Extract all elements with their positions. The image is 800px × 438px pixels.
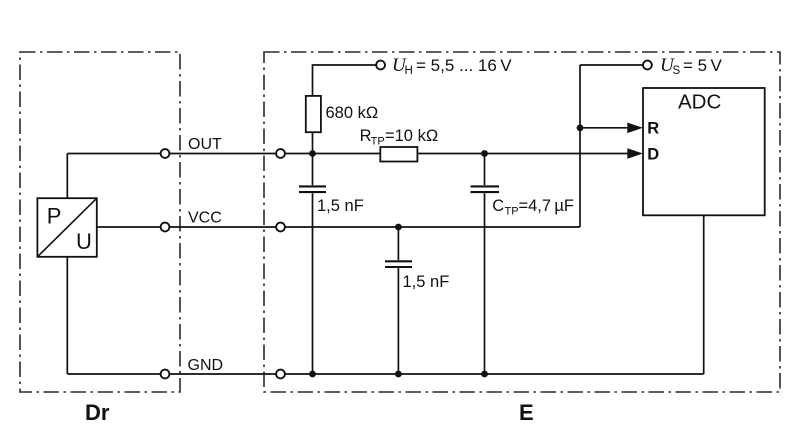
- resistor 680 kOhm: [306, 96, 321, 132]
- terminal circle GND (Dr side): [161, 370, 170, 379]
- svg-text:S: S: [673, 65, 681, 77]
- node US/R-input junction: [577, 124, 584, 131]
- wire VCC bus to supply line: [285, 226, 580, 228]
- arrowhead D input: [627, 148, 643, 159]
- node GND/1.5nF left junction: [309, 371, 316, 378]
- svg-text:= 5 V: = 5 V: [683, 56, 723, 75]
- wire US horizontal: [580, 64, 643, 66]
- terminal circle VCC (Dr side): [161, 223, 170, 232]
- svg-text:1,5 nF: 1,5 nF: [317, 197, 364, 215]
- wire UH horizontal: [313, 64, 377, 66]
- capacitor 1,5 nF (middle, VCC to GND): [397, 227, 399, 260]
- svg-text:R: R: [647, 120, 659, 138]
- wire OUT between boxes: [169, 153, 276, 155]
- svg-text:U: U: [76, 229, 92, 254]
- capacitor 1,5 nF (left, OUT to GND): [312, 154, 314, 186]
- wire RTP to D line: [417, 153, 628, 155]
- wire VCC from sensor: [97, 226, 161, 228]
- wire sensor top pin to OUT row: [66, 154, 68, 199]
- svg-text:ADC: ADC: [678, 90, 721, 113]
- svg-text:1,5 nF: 1,5 nF: [403, 273, 450, 291]
- node GND/1.5nF mid junction: [395, 371, 402, 378]
- IC ADC box: [643, 88, 765, 215]
- wire GND between boxes: [169, 373, 276, 375]
- terminal circle OUT (Dr side): [161, 149, 170, 158]
- sensor box P/U: [37, 198, 96, 257]
- svg-text:OUT: OUT: [188, 136, 222, 153]
- terminal circle VCC (E side): [276, 223, 285, 232]
- wire GND row inside Dr: [67, 373, 160, 375]
- wire UH feed (vertical above 680k): [312, 64, 314, 96]
- svg-text:=10 kΩ: =10 kΩ: [385, 127, 438, 145]
- svg-text:P: P: [47, 203, 62, 228]
- svg-text:E: E: [519, 400, 534, 425]
- terminal circle GND (E side): [276, 370, 285, 379]
- svg-text:TP: TP: [505, 206, 519, 218]
- svg-text:VCC: VCC: [188, 210, 222, 227]
- wire GND bus: [285, 373, 704, 375]
- svg-text:GND: GND: [188, 357, 224, 374]
- node GND/CTP junction: [481, 371, 488, 378]
- node RTP/CTP junction: [481, 150, 488, 157]
- wire VCC between boxes: [169, 226, 276, 228]
- svg-text:H: H: [405, 65, 413, 77]
- svg-text:TP: TP: [371, 135, 385, 147]
- svg-text:D: D: [647, 146, 659, 164]
- wire sensor bottom pin to GND row: [66, 257, 68, 374]
- wire US vertical (supply to VCC bus): [579, 65, 581, 227]
- svg-text:Dr: Dr: [85, 400, 110, 425]
- resistor RTP: [380, 147, 417, 162]
- capacitor CTP 4,7 uF: [484, 154, 486, 186]
- svg-text:C: C: [492, 197, 504, 215]
- arrowhead R input: [627, 123, 643, 134]
- svg-text:= 5,5 ... 16 V: = 5,5 ... 16 V: [416, 56, 512, 75]
- wire ADC ground pin: [703, 215, 705, 374]
- enclosure Dr (dash-dot box): [20, 52, 180, 392]
- svg-text:680 kΩ: 680 kΩ: [326, 104, 379, 122]
- terminal circle OUT (E side): [276, 149, 285, 158]
- enclosure E (dash-dot box): [264, 52, 780, 392]
- node VCC/1.5nF junction: [395, 224, 402, 231]
- node OUT/680k/1.5nF junction: [309, 150, 316, 157]
- wire 680k to OUT node: [312, 132, 314, 153]
- wire R input: [580, 127, 629, 129]
- terminal circle US: [643, 61, 652, 70]
- terminal circle UH: [376, 61, 385, 70]
- wire OUT to resistor RTP: [285, 153, 380, 155]
- svg-text:=4,7 µF: =4,7 µF: [519, 197, 574, 215]
- wire OUT row inside Dr: [67, 153, 160, 155]
